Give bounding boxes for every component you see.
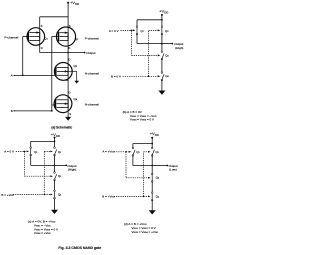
wire output node to Q3 (c) [54,165,56,172]
switch Q4 (c) [54,190,62,199]
svg-text:(High): (High) [68,168,76,172]
switch Q1 (d) [132,147,140,156]
Q3 substrate to ground [68,70,77,72]
wire output node to Q3 (d) [151,166,153,175]
svg-text:+VDD: +VDD [51,132,60,138]
switch Q3 (b) [161,51,169,60]
svg-text:S: S [69,24,71,28]
svg-text:+VDD: +VDD [150,131,159,137]
wire Q3 to Q4 (c) [54,180,56,191]
wire Q2 gate stub [52,36,59,38]
switch Q2 (c) [54,147,62,156]
wire Q4 to ground (d) [151,200,153,210]
wire Q2 drain down [67,41,69,53]
switch Q2 (b) [161,26,169,35]
svg-text:N-channel: N-channel [85,71,99,75]
svg-text:N-channel: N-channel [85,103,99,107]
node +VDD (c) [54,137,56,139]
wire Q3 to Q4 (b) [161,59,163,73]
wire Q1 branch lower (b) [136,34,138,44]
wire Q2 to output node (d) [151,156,153,166]
Q4 body [54,95,72,113]
node B junction [51,110,53,112]
svg-text:Fig. 3.3 CMOS NAND gate: Fig. 3.3 CMOS NAND gate [58,246,101,250]
wire Q3 drain up to output [67,53,69,67]
wire Q4 source down [67,108,69,117]
node output junction (b) [161,43,163,45]
wire A input row [14,74,56,76]
ground arrow (d) [149,210,156,214]
wire Q4 to ground (c) [54,198,56,210]
wire B to Q2/Q4 gates [51,37,53,111]
svg-text:B: B [11,109,13,113]
wire dashed A to Q1 (c) [16,150,25,152]
wire Q2 to output node (b) [161,34,163,44]
wire Q1 source to VDD [40,16,68,18]
svg-text:A = 0 V: A = 0 V [109,29,119,33]
wire Q1 branch upper (c) [30,141,32,147]
node output junction (c) [54,165,56,167]
wire Q1 gate [23,36,29,38]
wire Q2 to output node (c) [54,155,56,165]
svg-text:(Low): (Low) [169,168,177,172]
wire dashed B up to Q2 (b) [148,30,150,76]
+VDD supply node [67,2,69,4]
wire dashed A down to Q3 (c) [23,151,25,176]
switch Q4 (b) [161,72,169,81]
wire VDD stem (b) [161,15,163,27]
wire output (c) [55,164,67,166]
svg-text:P-channel: P-channel [4,35,18,39]
wire Q3 source to Q4 drain [67,76,69,99]
wire dashed B to Q4 (b) [123,75,149,77]
wire dashed B up to Q2 (d) [143,152,145,197]
switch Q1 (c) [30,147,38,156]
svg-text:D: D [69,57,71,61]
wire VDD stem (c) [54,138,56,148]
wire dashed B to Q4 (c) [13,194,44,196]
svg-text:D: D [69,90,71,94]
switch Q3 (d) [151,173,159,182]
svg-text:P-channel: P-channel [85,37,99,41]
switch Q1 (b) [136,26,144,35]
wire dashed A down to Q3 (d) [125,152,127,178]
wire top row (c) [31,140,55,142]
svg-text:B = 0 V: B = 0 V [111,75,121,79]
wire VDD stem (d) [151,138,153,148]
svg-text:D: D [68,46,70,50]
wire output (d) [152,165,167,167]
node output junction [67,52,69,54]
switch Q4 (d) [151,192,159,201]
ground (Q3 substrate) [74,81,79,84]
node +VDD (b) [161,14,163,16]
Q1 body [27,28,45,46]
svg-text:(a) Schematic: (a) Schematic [51,126,72,130]
wire Q1 branch lower (d) [132,156,134,166]
wire Q1 branch upper (d) [132,144,134,149]
svg-text:Output: Output [86,51,95,55]
wire Q4 to ground (b) [161,80,163,91]
Q2 body [56,27,75,46]
wire dashed A to Q1 (b) [120,29,131,31]
wire output [68,52,85,54]
wire Q1 drain down [39,41,41,53]
wire top row (b) [137,19,162,21]
wire VDD stem [67,3,69,33]
wire output node to Q3 (b) [161,44,163,52]
svg-text:A = 0 V: A = 0 V [4,150,14,154]
wire Q1 branch upper (b) [136,20,138,27]
wire Q4 gate stub [52,104,56,106]
svg-text:(High): (High) [175,46,183,50]
wire dashed A to Q1 (d) [114,151,126,153]
switch Q3 (c) [54,172,62,181]
wire dashed B to Q4 (d) [114,195,144,197]
wire dashed A down to Q3 (b) [130,30,132,55]
node +VDD (d) [151,137,153,139]
wire Q3 to Q4 (d) [151,182,153,193]
ground arrow (c) [51,210,58,214]
node A junction [22,75,24,77]
wire dashed B up to Q2 (c) [43,151,45,194]
svg-text:S: S [41,24,43,28]
svg-text:+VDD: +VDD [159,9,168,15]
svg-text:D: D [41,46,43,50]
wire output (b) [162,43,172,45]
node output junction (d) [151,165,153,167]
switch Q2 (d) [151,147,159,156]
Q3 body [54,63,72,81]
ground arrow (b) [158,91,165,95]
wire top row (d) [133,143,152,145]
ground (Q4 source, VSS arrow) [65,117,71,121]
wire Q1 branch lower (c) [30,155,32,165]
wire Q1 drain to output node [40,52,68,54]
svg-text:+VDD: +VDD [70,0,79,6]
wire B input row [14,110,52,112]
svg-text:S: S [69,112,71,116]
